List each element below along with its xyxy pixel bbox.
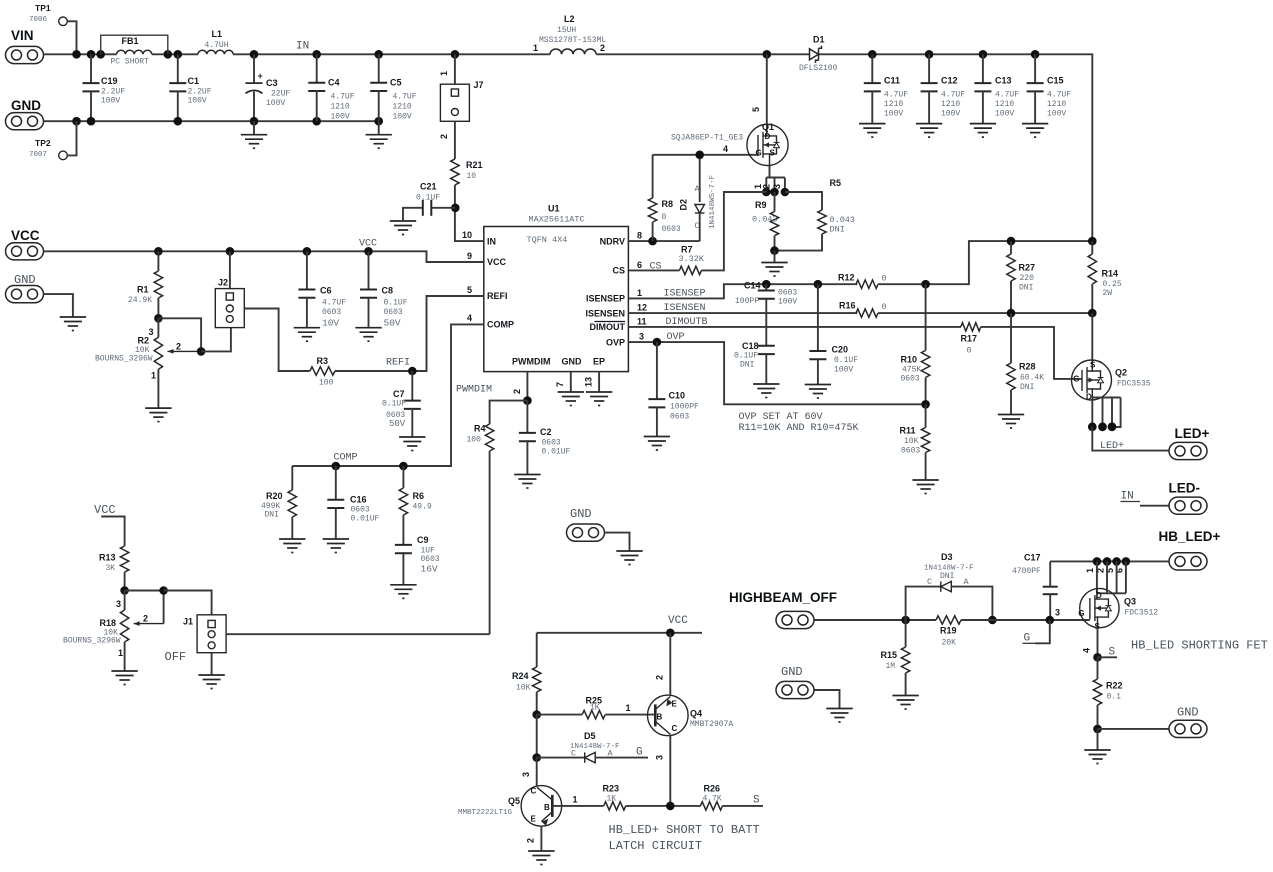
- svg-text:C: C: [927, 577, 932, 587]
- svg-text:0.25: 0.25: [1103, 280, 1122, 289]
- junction wiper: [197, 347, 206, 356]
- svg-text:7006: 7006: [29, 16, 48, 24]
- junction NDRV: [648, 237, 657, 246]
- svg-text:1210: 1210: [995, 100, 1014, 109]
- ground under R18: [111, 671, 137, 685]
- wire R24 to Q5/D5: [536, 715, 538, 758]
- resistor R8: [652, 155, 654, 198]
- capacitor C8: [368, 251, 370, 289]
- svg-text:B: B: [544, 803, 550, 812]
- capacitor C18 DNI: [765, 313, 767, 346]
- junction R22 bottom: [1093, 725, 1102, 734]
- svg-text:GND: GND: [562, 357, 583, 367]
- svg-text:4700PF: 4700PF: [1012, 567, 1041, 576]
- svg-text:2: 2: [439, 134, 449, 139]
- svg-text:1: 1: [533, 43, 538, 53]
- svg-text:12: 12: [637, 303, 647, 313]
- capacitor C3 polarized: [253, 54, 255, 83]
- svg-text:8: 8: [637, 231, 642, 241]
- svg-text:G: G: [1073, 375, 1079, 384]
- wire to GND connector: [1098, 728, 1170, 730]
- svg-text:C20: C20: [832, 345, 849, 355]
- ground under C3: [253, 121, 255, 135]
- junction R27/R14 top: [1007, 237, 1016, 246]
- svg-text:DNI: DNI: [265, 511, 279, 520]
- svg-text:A: A: [608, 749, 614, 759]
- svg-text:VIN: VIN: [11, 28, 34, 43]
- svg-text:D: D: [1096, 591, 1102, 600]
- svg-text:7007: 7007: [29, 151, 47, 159]
- svg-text:0603: 0603: [351, 506, 370, 515]
- svg-text:LED-: LED-: [1169, 481, 1201, 496]
- wire Q2 drain bracket: [1091, 400, 1093, 427]
- wire Q5 collector: [536, 758, 538, 787]
- junction R24/R25: [532, 710, 541, 719]
- junction C17/gate: [1046, 616, 1055, 625]
- svg-text:4.7UF: 4.7UF: [331, 93, 355, 102]
- svg-text:DIMOUT: DIMOUT: [590, 322, 626, 332]
- svg-text:ISENSEN: ISENSEN: [585, 308, 625, 318]
- wire ISENSEP net: [628, 284, 857, 298]
- capacitor C11: [871, 54, 873, 83]
- svg-text:1M: 1M: [886, 662, 896, 671]
- svg-text:DNI: DNI: [1019, 284, 1033, 293]
- svg-text:C13: C13: [995, 76, 1012, 86]
- resistor R4: [485, 424, 493, 451]
- wire GND middle to ground: [605, 533, 630, 551]
- resistor R13: [120, 546, 128, 572]
- svg-text:4.7UH: 4.7UH: [205, 41, 229, 50]
- wire J1 pin2 long to R4: [226, 633, 490, 635]
- capacitor C5: [378, 54, 380, 82]
- svg-text:1K: 1K: [590, 704, 600, 713]
- svg-text:DNI: DNI: [940, 572, 954, 581]
- resistor R23: [604, 802, 626, 810]
- svg-text:C19: C19: [101, 76, 118, 86]
- wire C21 right: [431, 207, 455, 209]
- svg-text:D3: D3: [941, 552, 953, 562]
- svg-text:1210: 1210: [331, 103, 350, 112]
- svg-text:R9: R9: [755, 200, 767, 210]
- svg-text:0.043: 0.043: [830, 215, 856, 225]
- net label S (Q3): [1098, 656, 1118, 658]
- wire GND to ground: [44, 294, 73, 317]
- svg-text:R24: R24: [512, 671, 529, 681]
- junction highbeam node: [901, 616, 910, 625]
- svg-text:D2: D2: [679, 199, 689, 211]
- svg-text:2: 2: [176, 342, 181, 352]
- svg-text:VCC: VCC: [11, 228, 40, 243]
- svg-text:REFI: REFI: [487, 291, 508, 301]
- svg-text:2: 2: [600, 43, 605, 53]
- resistor R5 DNI: [785, 192, 822, 210]
- wire TP1 to VIN rail: [67, 21, 76, 54]
- ground under R2: [145, 408, 171, 422]
- svg-text:R22: R22: [1106, 681, 1123, 691]
- diode D1 schottky: [810, 46, 822, 63]
- svg-text:15UH: 15UH: [557, 26, 576, 35]
- svg-text:COMP: COMP: [487, 320, 514, 330]
- svg-text:4.7UF: 4.7UF: [393, 93, 417, 102]
- svg-text:0.01UF: 0.01UF: [351, 515, 380, 524]
- svg-text:11: 11: [637, 316, 647, 326]
- svg-text:C6: C6: [320, 286, 332, 296]
- wire Q4 emitter pin2: [669, 633, 671, 695]
- svg-text:2: 2: [526, 838, 536, 843]
- svg-text:10: 10: [467, 172, 477, 181]
- svg-text:R11=10K AND R10=475K: R11=10K AND R10=475K: [739, 423, 859, 434]
- svg-text:2.2UF: 2.2UF: [188, 88, 212, 97]
- resistor R17: [961, 323, 981, 331]
- svg-text:100V: 100V: [331, 113, 350, 122]
- svg-text:0.043: 0.043: [752, 215, 778, 225]
- svg-text:20K: 20K: [942, 639, 957, 648]
- U1 EP pin ground: [598, 372, 600, 392]
- resistor R3: [310, 367, 335, 375]
- capacitor C21: [423, 200, 432, 216]
- svg-text:EP: EP: [593, 357, 605, 367]
- svg-text:MAX25611ATC: MAX25611ATC: [529, 215, 585, 225]
- wire R4 to J1 wire: [489, 451, 491, 634]
- wire VIN rail (IN net): [44, 53, 117, 55]
- capacitor C4: [316, 54, 318, 82]
- wire R17 to Q2 gate: [981, 327, 1082, 379]
- svg-text:R14: R14: [1102, 269, 1119, 279]
- junction C21 node: [451, 204, 460, 213]
- svg-text:1210: 1210: [884, 100, 903, 109]
- wire R16 to R14 bottom: [878, 312, 1092, 314]
- resistor R1: [157, 251, 159, 271]
- wire R3 to REFI pin: [335, 296, 484, 371]
- wire Q3 source: [1097, 628, 1099, 658]
- svg-text:MMBT2907A: MMBT2907A: [690, 720, 733, 729]
- svg-text:J1: J1: [183, 617, 193, 627]
- svg-text:VCC: VCC: [94, 503, 116, 517]
- capacitor C1: [177, 54, 179, 83]
- svg-text:C16: C16: [350, 495, 367, 505]
- resistor R22: [1097, 657, 1099, 679]
- svg-text:0: 0: [662, 213, 667, 222]
- capacitor C20: [817, 284, 819, 351]
- transistor Q3 FDC3512: [1080, 588, 1119, 627]
- svg-text:C1: C1: [188, 76, 200, 86]
- svg-text:BOURNS_3296W: BOURNS_3296W: [95, 355, 153, 364]
- ferrite bead FB1 with PC SHORT bracket: [101, 35, 168, 54]
- junction PWMDIM: [523, 396, 532, 405]
- svg-text:1: 1: [573, 795, 578, 805]
- svg-text:GND: GND: [781, 665, 803, 679]
- svg-text:Q3: Q3: [1124, 597, 1136, 607]
- junction R10/R11/OVP: [921, 400, 930, 409]
- svg-text:3.32K: 3.32K: [679, 254, 705, 264]
- svg-text:7: 7: [555, 382, 565, 387]
- svg-text:E: E: [531, 815, 537, 824]
- svg-text:R1: R1: [137, 285, 149, 295]
- svg-text:24.9K: 24.9K: [128, 296, 152, 305]
- svg-text:S: S: [1109, 647, 1116, 659]
- svg-text:C: C: [571, 749, 576, 759]
- capacitor C15: [1034, 54, 1036, 83]
- resistor R21: [451, 159, 459, 185]
- svg-text:R4: R4: [474, 424, 486, 434]
- inductor L2: [550, 49, 596, 54]
- svg-text:PWMDIM: PWMDIM: [456, 385, 492, 396]
- svg-text:0: 0: [882, 302, 887, 312]
- svg-text:R26: R26: [704, 784, 721, 794]
- transistor Q1 SQJA86EP-T1_GE3: [747, 124, 788, 165]
- svg-text:R19: R19: [940, 626, 957, 636]
- svg-text:4.7UF: 4.7UF: [884, 91, 908, 100]
- svg-text:3: 3: [639, 332, 644, 342]
- svg-text:OVP SET AT 60V: OVP SET AT 60V: [739, 412, 823, 423]
- svg-text:R10: R10: [901, 355, 918, 365]
- svg-text:R3: R3: [317, 356, 329, 366]
- svg-text:0603: 0603: [662, 225, 681, 234]
- wire R2 wiper tie: [158, 318, 201, 351]
- resistor R15: [905, 620, 907, 647]
- svg-text:475K: 475K: [902, 366, 921, 375]
- svg-text:3: 3: [1055, 608, 1060, 618]
- svg-text:ISENSEP: ISENSEP: [586, 294, 625, 304]
- svg-text:C14: C14: [744, 281, 761, 291]
- resistor R10: [925, 284, 927, 350]
- svg-text:220: 220: [1020, 274, 1035, 283]
- svg-text:1: 1: [151, 371, 156, 381]
- svg-text:R13: R13: [99, 553, 116, 563]
- resistor R9: [774, 192, 776, 212]
- svg-text:50V: 50V: [384, 318, 401, 329]
- svg-text:HIGHBEAM_OFF: HIGHBEAM_OFF: [729, 590, 837, 605]
- svg-text:0603: 0603: [670, 413, 689, 422]
- junction comp rail: [399, 462, 408, 471]
- svg-text:HB_LED+: HB_LED+: [1159, 529, 1221, 544]
- svg-text:100V: 100V: [941, 110, 960, 119]
- svg-text:0603: 0603: [322, 308, 341, 317]
- svg-text:S: S: [753, 795, 760, 807]
- junction R27/R14 bottom: [1007, 309, 1016, 318]
- svg-text:0.1UF: 0.1UF: [384, 299, 408, 308]
- ground under C5: [378, 121, 380, 135]
- transistor Q2 FDC3535: [1091, 313, 1093, 360]
- svg-text:E: E: [672, 700, 678, 709]
- resistor R14: [1091, 241, 1093, 254]
- svg-text:CS: CS: [612, 266, 625, 276]
- svg-text:C17: C17: [1024, 553, 1041, 563]
- wire Q1 drain pin 5: [766, 54, 768, 124]
- svg-text:DNI: DNI: [740, 361, 754, 370]
- transistor Q4 MMBT2907A: [648, 695, 689, 736]
- junction Q2 drain dots: [1088, 422, 1097, 431]
- capacitor C19: [90, 54, 92, 83]
- potentiometer R18 BOURNS_3296W: [124, 591, 126, 611]
- wire Q5 base to R23: [552, 805, 603, 807]
- wire VCC rail: [44, 251, 484, 262]
- svg-text:100: 100: [467, 436, 482, 445]
- wire TP2 to GND rail: [67, 121, 76, 155]
- wire G net stub (Q3): [1035, 620, 1050, 643]
- svg-text:1K: 1K: [607, 795, 617, 804]
- svg-text:C5: C5: [390, 78, 402, 88]
- svg-text:3: 3: [655, 755, 665, 760]
- wire J1 pin3 ground: [211, 653, 213, 675]
- resistor R24: [536, 633, 538, 667]
- svg-text:5: 5: [467, 285, 472, 295]
- svg-text:4: 4: [1082, 648, 1092, 653]
- svg-text:TQFN 4X4: TQFN 4X4: [527, 235, 568, 245]
- svg-text:0603: 0603: [542, 439, 561, 448]
- wire HIGHBEAM_OFF to R19: [815, 619, 937, 621]
- svg-text:C8: C8: [382, 286, 394, 296]
- svg-text:GND: GND: [570, 507, 592, 521]
- svg-text:G: G: [636, 747, 643, 759]
- wire R23 to junction: [626, 805, 701, 807]
- svg-text:10K: 10K: [516, 684, 531, 693]
- svg-text:R27: R27: [1019, 263, 1036, 273]
- ground under R9: [774, 251, 776, 263]
- svg-text:C18: C18: [742, 341, 759, 351]
- svg-text:HB_LED+ SHORT TO BATT: HB_LED+ SHORT TO BATT: [609, 823, 760, 837]
- svg-text:3: 3: [149, 327, 154, 337]
- svg-text:OVP: OVP: [667, 332, 685, 343]
- svg-text:R2: R2: [138, 336, 150, 346]
- resistor R20 DNI: [291, 466, 293, 490]
- svg-text:R6: R6: [413, 491, 425, 501]
- svg-text:60.4K: 60.4K: [1020, 374, 1044, 383]
- junction OVP/C10: [653, 338, 662, 347]
- svg-text:DIMOUTB: DIMOUTB: [666, 317, 708, 328]
- svg-text:R8: R8: [662, 199, 674, 209]
- svg-text:6: 6: [637, 260, 642, 270]
- svg-text:C: C: [695, 221, 700, 231]
- resistor R11: [925, 404, 927, 427]
- svg-text:R18: R18: [100, 618, 117, 628]
- diode D3 1N4148W-7-F DNI: [906, 587, 941, 620]
- svg-text:R15: R15: [881, 650, 898, 660]
- svg-text:C3: C3: [266, 78, 278, 88]
- svg-text:IN: IN: [296, 41, 309, 53]
- svg-text:S: S: [1090, 361, 1096, 370]
- resistor R16: [856, 309, 878, 317]
- wire J2 pin2 to R3: [244, 309, 309, 372]
- svg-text:R21: R21: [466, 160, 483, 170]
- svg-text:R7: R7: [681, 245, 693, 255]
- svg-text:9: 9: [467, 251, 472, 261]
- svg-text:C: C: [531, 787, 537, 796]
- wire Q1 gate: [653, 154, 759, 156]
- transistor Q5 MMBT2222LT1G: [521, 786, 562, 827]
- svg-text:C11: C11: [884, 76, 900, 86]
- svg-text:D: D: [1086, 393, 1092, 402]
- svg-text:4.7UF: 4.7UF: [941, 91, 965, 100]
- svg-text:100V: 100V: [884, 110, 903, 119]
- svg-text:100V: 100V: [1047, 110, 1066, 119]
- svg-text:FB1: FB1: [122, 36, 139, 46]
- svg-text:A: A: [964, 577, 970, 587]
- svg-text:50V: 50V: [389, 419, 406, 429]
- capacitor C6: [306, 251, 308, 289]
- wire R13 to junction: [124, 572, 126, 591]
- wire NDRV pin: [628, 240, 699, 242]
- connector J7: [454, 54, 456, 84]
- svg-text:100: 100: [319, 379, 334, 388]
- capacitor C13: [982, 54, 984, 83]
- svg-text:IN: IN: [487, 236, 496, 246]
- svg-text:MSS1278T-153ML: MSS1278T-153ML: [539, 36, 606, 45]
- wire R19 to gate node: [961, 619, 992, 621]
- resistor R19: [936, 616, 961, 624]
- wire C21 left to ground: [403, 208, 423, 221]
- svg-text:C7: C7: [393, 389, 405, 399]
- svg-text:0603: 0603: [901, 375, 920, 384]
- svg-text:Q2: Q2: [1115, 368, 1127, 378]
- diode D2 1N4148WS-7-F: [699, 155, 701, 202]
- svg-text:C2: C2: [540, 427, 552, 437]
- svg-text:0: 0: [967, 346, 972, 356]
- svg-text:DFLS2100: DFLS2100: [799, 64, 838, 73]
- svg-text:Q5: Q5: [508, 796, 520, 806]
- svg-text:L2: L2: [564, 14, 575, 24]
- svg-text:4.7K: 4.7K: [703, 795, 722, 804]
- svg-text:1000PF: 1000PF: [670, 403, 699, 412]
- capacitor C16: [335, 466, 337, 500]
- svg-text:C21: C21: [420, 182, 437, 192]
- svg-text:R12: R12: [838, 273, 855, 283]
- wire R21 to IN pin node: [455, 185, 484, 241]
- svg-text:100V: 100V: [266, 99, 285, 108]
- junction R9/R5: [770, 246, 779, 255]
- svg-text:REFI: REFI: [386, 358, 410, 369]
- resistor R12: [856, 280, 878, 288]
- svg-text:R16: R16: [839, 301, 856, 311]
- svg-text:ISENSEP: ISENSEP: [664, 289, 706, 300]
- svg-text:1: 1: [1085, 568, 1095, 573]
- svg-text:OFF: OFF: [165, 650, 187, 664]
- svg-text:TP1: TP1: [35, 3, 51, 13]
- svg-text:CS: CS: [650, 262, 662, 273]
- svg-text:A: A: [695, 184, 701, 194]
- resistor R6: [402, 466, 404, 488]
- svg-text:C: C: [672, 724, 678, 733]
- junction gate/D2: [695, 151, 704, 160]
- wire DIMOUTB net: [628, 326, 961, 328]
- U1 GND pin ground: [570, 372, 572, 392]
- svg-text:G: G: [1078, 609, 1084, 618]
- wire R26 to S stub: [722, 805, 763, 807]
- wire VCC to R13: [101, 517, 124, 547]
- wire J7 pin2 to R21: [454, 121, 456, 159]
- inductor L1: [198, 50, 233, 54]
- svg-text:FDC3535: FDC3535: [1117, 380, 1151, 389]
- svg-text:4: 4: [723, 144, 728, 154]
- svg-text:16V: 16V: [421, 564, 438, 575]
- svg-text:10K: 10K: [904, 437, 919, 446]
- junction Q1 source dots: [762, 188, 771, 197]
- svg-text:0.1UF: 0.1UF: [416, 194, 440, 203]
- svg-text:PC SHORT: PC SHORT: [111, 58, 150, 67]
- svg-text:COMP: COMP: [334, 453, 358, 464]
- junction D3 right: [988, 616, 997, 625]
- capacitor C12: [928, 54, 930, 83]
- wire GND rail: [44, 120, 379, 122]
- svg-text:LED+: LED+: [1175, 426, 1210, 441]
- svg-text:2: 2: [143, 614, 148, 624]
- svg-text:GND: GND: [11, 98, 41, 113]
- svg-text:OVP: OVP: [606, 337, 625, 347]
- wire LED+ net: [1092, 427, 1169, 451]
- svg-text:TP2: TP2: [35, 138, 51, 148]
- capacitor C14: [765, 284, 767, 290]
- svg-text:100V: 100V: [393, 113, 412, 122]
